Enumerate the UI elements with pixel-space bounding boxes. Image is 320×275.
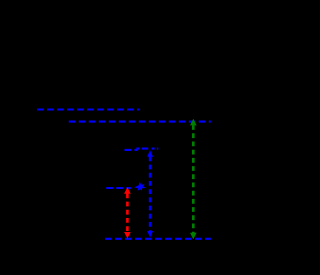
- blue star marker (non-radiative decay burst): [134, 182, 146, 191]
- green transition arrow (double-headed, E3 to E0): [190, 119, 197, 239]
- energy level E3 (second, long blue dashed): [69, 121, 211, 123]
- red transition arrow (double-headed, E1 to E0): [124, 187, 131, 238]
- energy level E2b (short blue dashed, right part): [136, 148, 158, 150]
- energy level E0 (ground, long blue dashed): [105, 238, 211, 240]
- energy level E2a (short blue dashed, left part): [125, 149, 138, 151]
- energy level E4 (top, blue dashed): [37, 108, 139, 110]
- energy level E1 (short blue dashed): [106, 187, 131, 189]
- blue transition arrow (double-headed, E2 to E0): [147, 150, 153, 237]
